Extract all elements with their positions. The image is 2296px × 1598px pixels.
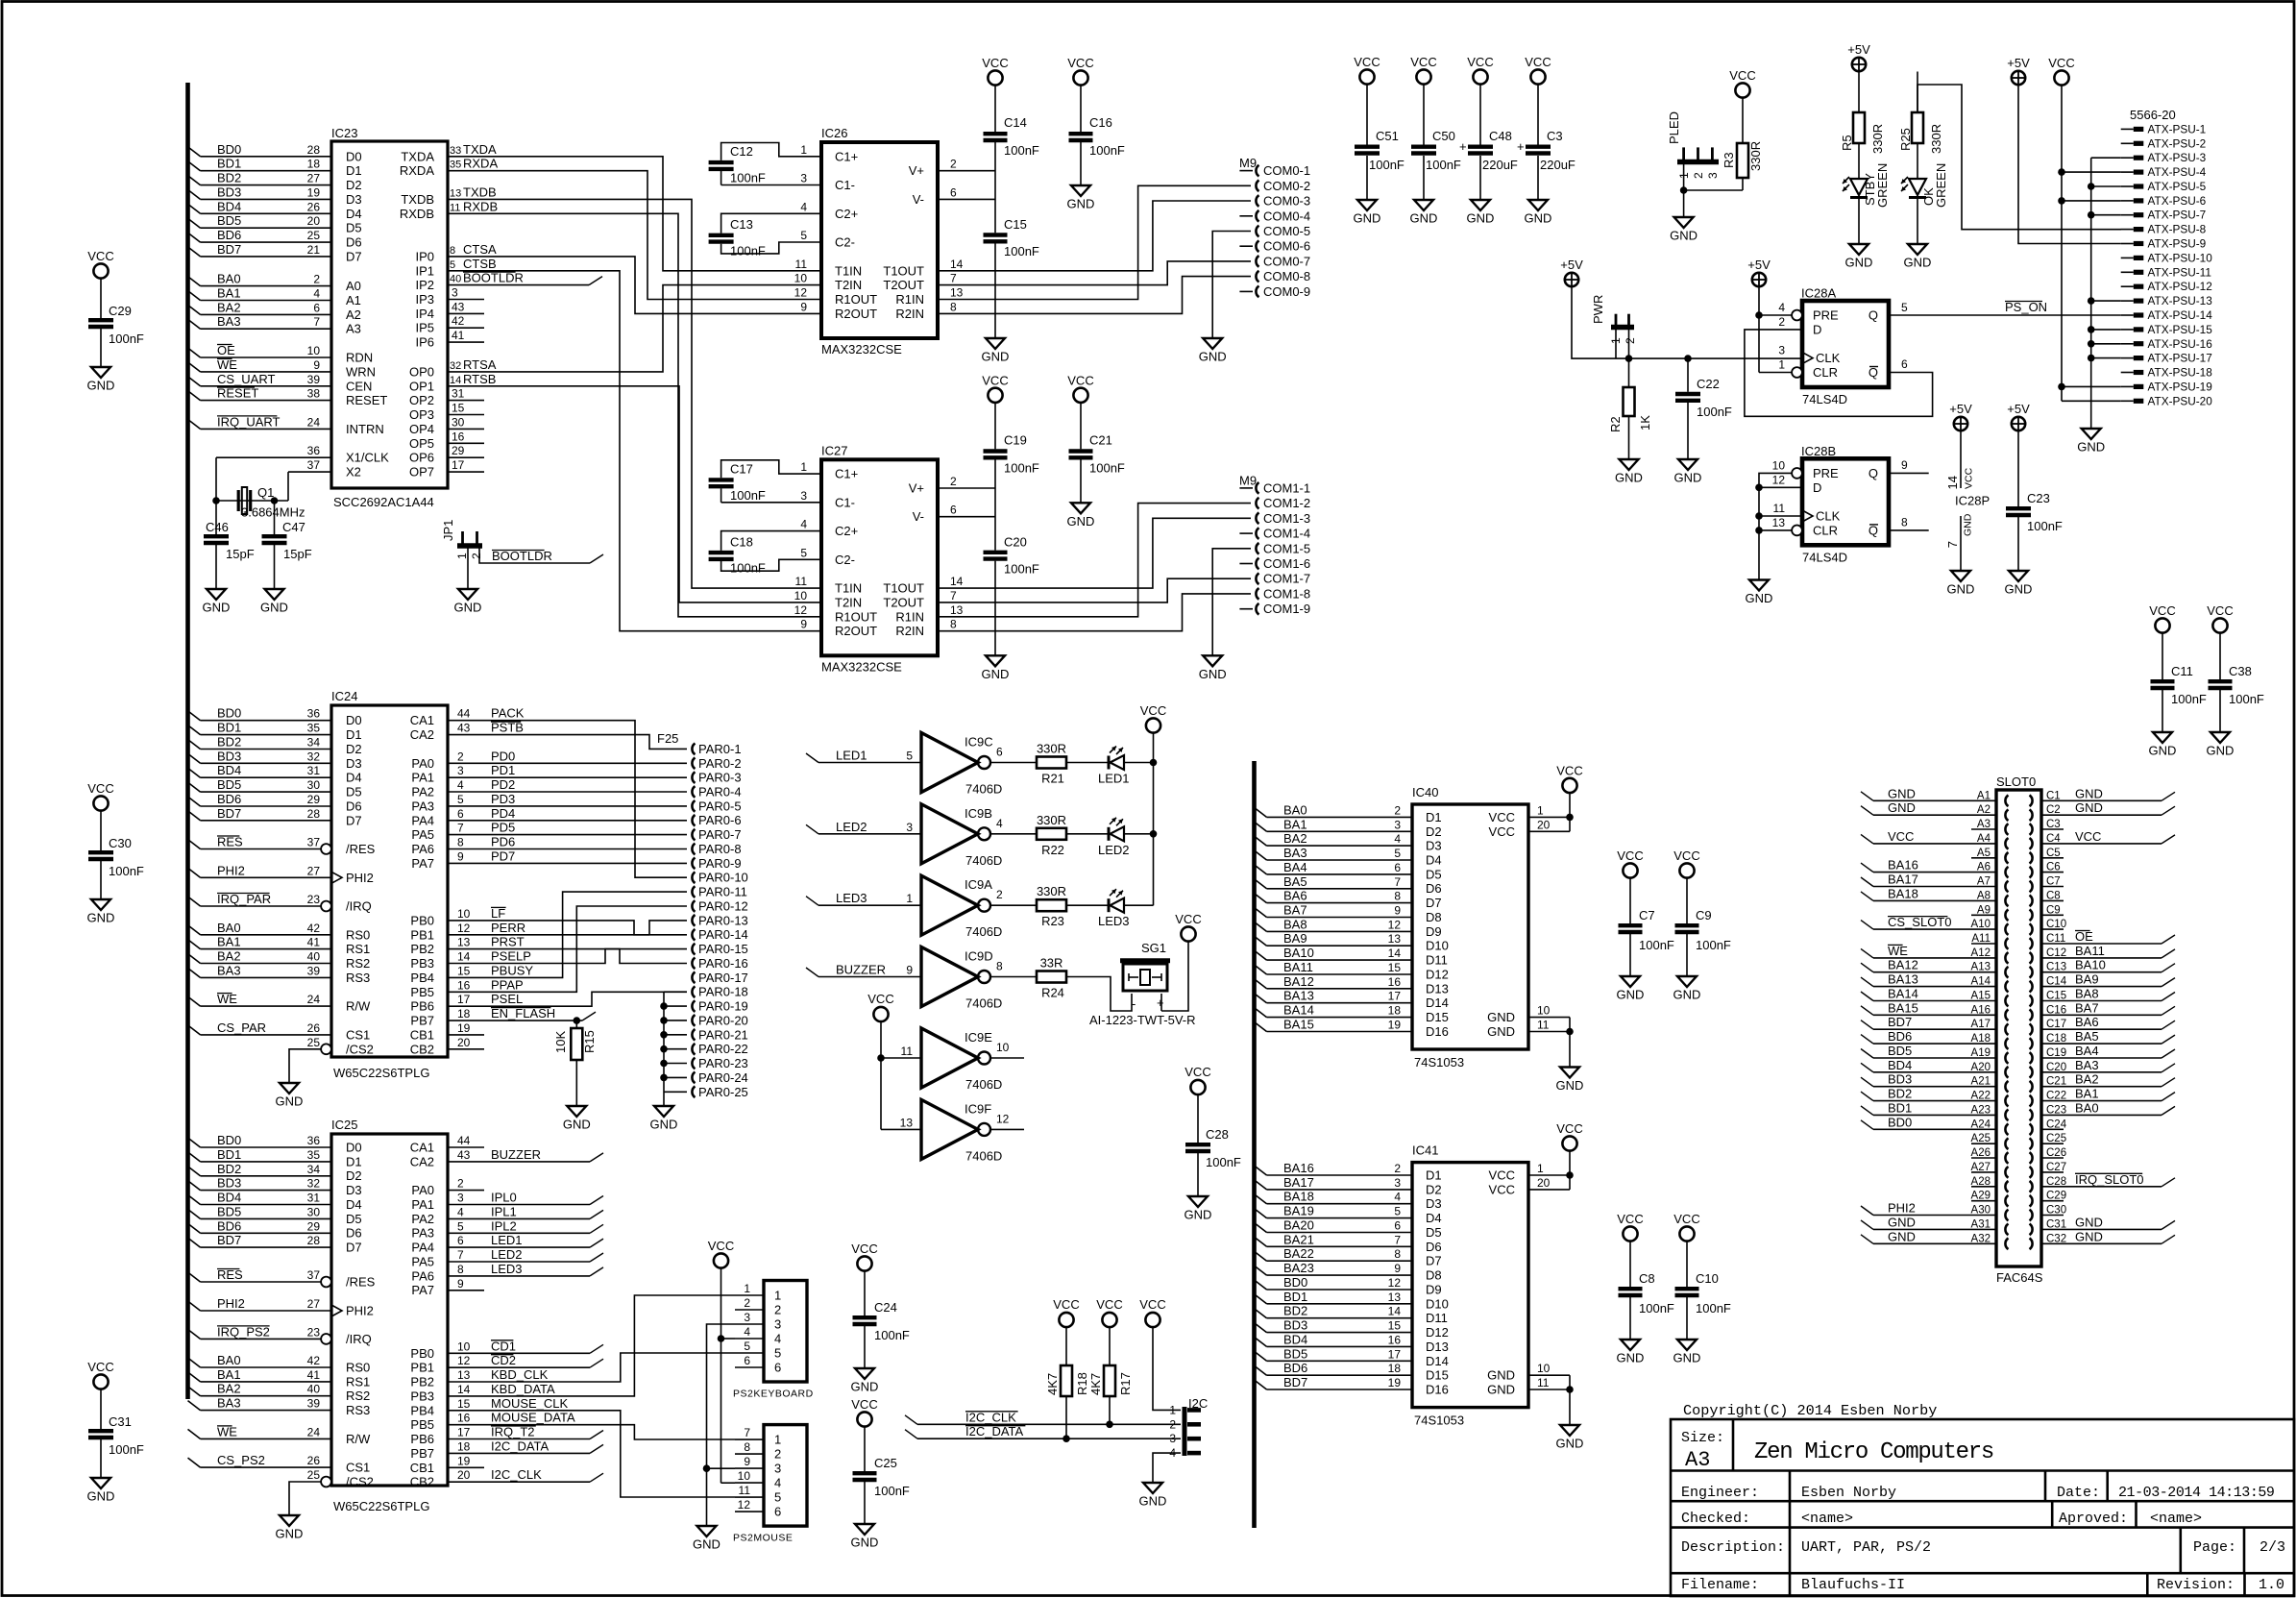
svg-text:D16: D16 bbox=[1426, 1024, 1449, 1039]
capacitor C31 100nF decoupling bbox=[87, 1360, 144, 1504]
svg-text:7: 7 bbox=[744, 1426, 750, 1439]
svg-text:7: 7 bbox=[950, 589, 957, 602]
svg-text:BA5: BA5 bbox=[2075, 1029, 2099, 1044]
svg-text:R5: R5 bbox=[1840, 135, 1854, 151]
junction dot crystal left bbox=[212, 497, 220, 504]
SLOT0 C29 stub bbox=[2041, 1200, 2064, 1202]
svg-text:9: 9 bbox=[313, 358, 320, 372]
svg-text:COM1-7: COM1-7 bbox=[1263, 572, 1310, 586]
wire BD2 to SLOT0 A22 bbox=[1861, 1087, 1996, 1101]
svg-text:BA9: BA9 bbox=[2075, 972, 2099, 987]
svg-text:RS1: RS1 bbox=[346, 1374, 370, 1389]
wire BA22 to IC41 bbox=[1255, 1246, 1413, 1261]
svg-text:100nF: 100nF bbox=[109, 332, 144, 346]
svg-text:3: 3 bbox=[1778, 344, 1785, 357]
svg-text:21: 21 bbox=[307, 243, 321, 257]
svg-text:T1IN: T1IN bbox=[835, 581, 862, 596]
svg-text:EN_FLASH: EN_FLASH bbox=[491, 1006, 555, 1020]
svg-text:2: 2 bbox=[996, 888, 1003, 901]
svg-text:13: 13 bbox=[900, 1116, 914, 1129]
svg-text:VCC: VCC bbox=[2149, 603, 2175, 618]
wire BD2 to IC41 bbox=[1255, 1304, 1413, 1318]
svg-text:ATX-PSU-6: ATX-PSU-6 bbox=[2148, 194, 2207, 208]
svg-text:12: 12 bbox=[457, 922, 471, 935]
svg-text:BA23: BA23 bbox=[1283, 1261, 1314, 1275]
wire BA16 to IC41 bbox=[1255, 1161, 1413, 1175]
svg-text:/RES: /RES bbox=[346, 1275, 376, 1290]
IC U25 W65C22S6TPLG body bbox=[321, 1118, 448, 1513]
svg-text:BA1: BA1 bbox=[217, 286, 241, 301]
svg-text:17: 17 bbox=[1388, 1347, 1402, 1361]
svg-text:D9: D9 bbox=[1426, 924, 1442, 939]
svg-text:<name>: <name> bbox=[2150, 1511, 2202, 1527]
IC23 stub pin 17 bbox=[448, 458, 484, 472]
svg-text:9: 9 bbox=[800, 618, 807, 631]
svg-text:BA0: BA0 bbox=[217, 272, 241, 286]
svg-text:17: 17 bbox=[452, 458, 465, 472]
svg-text:C16: C16 bbox=[1089, 115, 1112, 130]
svg-text:LED2: LED2 bbox=[836, 820, 867, 834]
wire BA0 to IC24 pin 42 bbox=[188, 921, 332, 935]
wire CTSA bbox=[448, 242, 821, 314]
svg-text:GND: GND bbox=[1888, 1229, 1916, 1243]
svg-text:ATX-PSU-8: ATX-PSU-8 bbox=[2148, 223, 2207, 236]
svg-text:BA21: BA21 bbox=[1283, 1232, 1314, 1246]
svg-text:C1-: C1- bbox=[835, 495, 855, 509]
svg-text:BD1: BD1 bbox=[217, 721, 241, 735]
connector PLED header bbox=[1667, 111, 1720, 179]
connector PS2MOUSE bbox=[733, 1425, 807, 1544]
IC U40 74S1053 body bbox=[1412, 785, 1528, 1069]
wire BD3 to IC41 bbox=[1255, 1318, 1413, 1333]
svg-text:GND: GND bbox=[2005, 582, 2033, 597]
svg-text:+: + bbox=[1157, 996, 1164, 1010]
wire KBD_CLK bbox=[448, 1353, 735, 1382]
wire BA1 to SLOT0 C22 bbox=[2041, 1087, 2175, 1101]
inverter IC9F 7406D bbox=[921, 1099, 1002, 1163]
SLOT0 A9 stub bbox=[1971, 914, 1996, 916]
svg-text:ATX-PSU-10: ATX-PSU-10 bbox=[2148, 251, 2213, 264]
svg-text:C12: C12 bbox=[730, 144, 753, 159]
svg-text:13: 13 bbox=[1388, 1291, 1402, 1304]
svg-text:5: 5 bbox=[906, 750, 913, 763]
IC28P power pins symbol bbox=[1945, 402, 1990, 597]
svg-text:14: 14 bbox=[1388, 947, 1402, 960]
svg-text:CB1: CB1 bbox=[410, 1461, 434, 1475]
svg-text:CTSB: CTSB bbox=[463, 257, 497, 271]
svg-text:-: - bbox=[1132, 996, 1136, 1011]
svg-text:CS1: CS1 bbox=[346, 1461, 370, 1475]
svg-text:IPL0: IPL0 bbox=[491, 1191, 517, 1205]
wire CS_PAR to IC24 pin 26 bbox=[188, 1020, 332, 1035]
svg-text:29: 29 bbox=[307, 1219, 321, 1233]
svg-text:GND: GND bbox=[1487, 1010, 1515, 1024]
svg-text:BOOTLDR: BOOTLDR bbox=[492, 549, 552, 563]
wire GND to SLOT0 A2 bbox=[1861, 800, 1996, 815]
svg-text:D15: D15 bbox=[1426, 1368, 1449, 1383]
svg-text:D3: D3 bbox=[346, 1183, 362, 1197]
svg-text:VCC: VCC bbox=[1067, 56, 1093, 70]
svg-text:V+: V+ bbox=[909, 481, 924, 496]
wire BD4 to IC41 bbox=[1255, 1332, 1413, 1346]
svg-text:C28: C28 bbox=[1206, 1127, 1229, 1142]
svg-text:BA16: BA16 bbox=[1888, 858, 1918, 873]
svg-text:D4: D4 bbox=[346, 771, 362, 785]
svg-text:PA5: PA5 bbox=[411, 827, 434, 842]
wire RTSB bbox=[448, 372, 821, 602]
svg-text:PAR0-21: PAR0-21 bbox=[698, 1027, 748, 1042]
svg-text:+: + bbox=[1459, 139, 1467, 154]
svg-text:11: 11 bbox=[1773, 502, 1786, 515]
svg-text:GND: GND bbox=[1674, 471, 1702, 485]
svg-text:BA4: BA4 bbox=[2075, 1044, 2099, 1058]
SLOT0 C25 stub bbox=[2041, 1143, 2064, 1144]
svg-text:SLOT0: SLOT0 bbox=[1996, 774, 2036, 789]
svg-text:3: 3 bbox=[452, 286, 458, 300]
svg-text:100nF: 100nF bbox=[1004, 143, 1039, 158]
IC28A Qbar feedback to D bbox=[1745, 330, 1933, 416]
svg-text:RXDB: RXDB bbox=[400, 207, 434, 221]
svg-text:COM0-6: COM0-6 bbox=[1263, 239, 1310, 254]
svg-text:30: 30 bbox=[307, 778, 321, 792]
svg-text:36: 36 bbox=[307, 1134, 321, 1147]
svg-text:LED1: LED1 bbox=[1098, 772, 1130, 786]
svg-text:/CS2: /CS2 bbox=[346, 1475, 374, 1489]
svg-text:39: 39 bbox=[307, 1397, 321, 1411]
svg-text:PAR0-5: PAR0-5 bbox=[698, 799, 742, 813]
svg-text:COM1-8: COM1-8 bbox=[1263, 586, 1310, 601]
svg-text:10: 10 bbox=[794, 272, 808, 285]
svg-text:CS_PAR: CS_PAR bbox=[217, 1020, 266, 1035]
connector JP1 jumper bbox=[441, 520, 483, 559]
svg-text:VCC: VCC bbox=[1467, 55, 1493, 69]
wire BD0 to IC25 pin 36 bbox=[188, 1133, 332, 1147]
svg-text:38: 38 bbox=[307, 387, 321, 401]
svg-text:7406D: 7406D bbox=[965, 1148, 1002, 1163]
svg-text:R15: R15 bbox=[582, 1030, 597, 1053]
svg-text:VCC: VCC bbox=[1729, 68, 1755, 83]
svg-text:COM1-1: COM1-1 bbox=[1263, 480, 1310, 495]
bus central BA/BD bus bbox=[1252, 761, 1257, 1528]
svg-text:BA2: BA2 bbox=[217, 949, 241, 964]
svg-text:1: 1 bbox=[1778, 358, 1785, 372]
VCC rail to ATX-PSU pins 4 6 19 20 bbox=[2048, 56, 2120, 401]
capacitor C15 100nF on V- bbox=[982, 217, 1039, 364]
wire LF PB0 bbox=[448, 906, 687, 935]
svg-text:33R: 33R bbox=[1040, 956, 1063, 971]
svg-text:10K: 10K bbox=[553, 1031, 568, 1053]
svg-text:CLK: CLK bbox=[1816, 351, 1841, 365]
svg-text:100nF: 100nF bbox=[2027, 519, 2063, 533]
svg-text:Size:: Size: bbox=[1681, 1430, 1724, 1446]
svg-text:VCC: VCC bbox=[1185, 1065, 1210, 1079]
svg-text:Q: Q bbox=[1869, 308, 1878, 323]
svg-text:10: 10 bbox=[307, 344, 321, 357]
resistor R2 1K bbox=[1608, 358, 1652, 484]
svg-text:3: 3 bbox=[1706, 172, 1720, 179]
svg-text:Page:: Page: bbox=[2193, 1539, 2236, 1556]
svg-text:9: 9 bbox=[457, 849, 464, 863]
wire WE to IC24 pin 24 bbox=[188, 992, 332, 1006]
svg-text:WE: WE bbox=[217, 992, 237, 1006]
svg-text:Copyright(C) 2014 Esben Norby: Copyright(C) 2014 Esben Norby bbox=[1683, 1402, 1937, 1419]
svg-text:COM0-8: COM0-8 bbox=[1263, 269, 1310, 283]
capacitor C51 100nF bbox=[1354, 55, 1404, 226]
wire BA9 to IC40 bbox=[1255, 931, 1413, 946]
svg-text:R/W: R/W bbox=[346, 1432, 371, 1446]
svg-text:36: 36 bbox=[307, 444, 321, 457]
svg-text:32: 32 bbox=[307, 1177, 321, 1191]
wire BD5 to IC23 pin 20 bbox=[188, 213, 332, 228]
wire BA7 to IC40 bbox=[1255, 903, 1413, 918]
wire BD7 to IC41 bbox=[1255, 1375, 1413, 1389]
svg-text:PSELP: PSELP bbox=[491, 949, 531, 964]
svg-text:PRST: PRST bbox=[491, 935, 525, 949]
svg-text:37: 37 bbox=[307, 836, 321, 849]
svg-text:Q: Q bbox=[1869, 523, 1878, 537]
svg-text:GND: GND bbox=[1615, 471, 1643, 485]
wire PD1 bbox=[448, 763, 687, 777]
svg-text:Zen Micro Computers: Zen Micro Computers bbox=[1754, 1439, 1993, 1465]
svg-text:15: 15 bbox=[457, 964, 471, 977]
svg-text:WE: WE bbox=[217, 357, 237, 372]
svg-text:Description:: Description: bbox=[1681, 1539, 1785, 1556]
svg-text:6: 6 bbox=[950, 504, 957, 517]
svg-text:PAR0-20: PAR0-20 bbox=[698, 1013, 748, 1027]
wire BA23 to IC41 bbox=[1255, 1261, 1413, 1275]
svg-text:6: 6 bbox=[1394, 1219, 1401, 1233]
svg-text:RDN: RDN bbox=[346, 351, 373, 365]
svg-text:D8: D8 bbox=[1426, 1268, 1442, 1283]
svg-text:C1+: C1+ bbox=[835, 149, 858, 163]
svg-text:10: 10 bbox=[1537, 1362, 1551, 1375]
svg-text:R3: R3 bbox=[1722, 152, 1736, 168]
SLOT0 C24 stub bbox=[2041, 1128, 2064, 1130]
svg-text:A3: A3 bbox=[1685, 1448, 1710, 1472]
svg-text:D5: D5 bbox=[346, 1212, 362, 1226]
svg-text:VCC: VCC bbox=[1556, 1121, 1582, 1136]
svg-text:7: 7 bbox=[457, 822, 464, 835]
svg-text:PB3: PB3 bbox=[410, 1389, 434, 1403]
wire BA21 to IC41 bbox=[1255, 1232, 1413, 1246]
title block table frame bbox=[1671, 1419, 2294, 1596]
svg-text:<name>: <name> bbox=[1801, 1511, 1853, 1527]
wire BA2 to IC23 pin 6 bbox=[188, 300, 332, 314]
svg-text:C7: C7 bbox=[1639, 908, 1655, 922]
wire LED2 bbox=[448, 1247, 603, 1262]
svg-text:OE: OE bbox=[217, 343, 235, 357]
wire LED1 bbox=[448, 1233, 603, 1247]
svg-text:5: 5 bbox=[774, 1490, 781, 1505]
wire BD4 to SLOT0 A20 bbox=[1861, 1058, 1996, 1072]
svg-text:6: 6 bbox=[950, 185, 957, 199]
svg-text:PS_ON: PS_ON bbox=[2005, 300, 2047, 314]
svg-text:D3: D3 bbox=[1426, 1196, 1442, 1211]
capacitor C17 100nF bbox=[709, 460, 821, 503]
svg-text:INTRN: INTRN bbox=[346, 422, 384, 436]
wire BA10 to IC40 bbox=[1255, 946, 1413, 960]
svg-text:PHI2: PHI2 bbox=[217, 863, 245, 877]
svg-text:28: 28 bbox=[307, 807, 321, 821]
svg-text:2: 2 bbox=[1778, 315, 1785, 329]
PS2 ground rail bbox=[693, 1324, 735, 1552]
svg-text:ATX-PSU-16: ATX-PSU-16 bbox=[2148, 337, 2213, 351]
svg-text:GND: GND bbox=[2207, 744, 2235, 758]
svg-text:3: 3 bbox=[774, 1317, 781, 1332]
svg-text:C30: C30 bbox=[109, 836, 132, 850]
svg-text:GND: GND bbox=[2075, 1229, 2103, 1243]
svg-text:R23: R23 bbox=[1041, 914, 1064, 928]
wire BA4 to SLOT0 C19 bbox=[2041, 1044, 2175, 1058]
svg-text:I2C_DATA: I2C_DATA bbox=[491, 1438, 550, 1453]
svg-text:D6: D6 bbox=[346, 235, 362, 250]
svg-text:GND: GND bbox=[1525, 211, 1552, 226]
wire PACK CA1 to PAR0-10 bbox=[448, 706, 687, 878]
svg-text:COM1-5: COM1-5 bbox=[1263, 541, 1310, 555]
wire PD7 bbox=[448, 848, 687, 863]
svg-text:D2: D2 bbox=[346, 1168, 362, 1183]
svg-text:BD0: BD0 bbox=[217, 706, 241, 721]
svg-text:43: 43 bbox=[457, 722, 471, 735]
svg-text:100nF: 100nF bbox=[874, 1328, 910, 1342]
svg-text:VCC: VCC bbox=[1888, 829, 1914, 844]
svg-text:37: 37 bbox=[307, 1268, 321, 1282]
svg-text:A2: A2 bbox=[346, 307, 361, 322]
svg-text:D9: D9 bbox=[1426, 1283, 1442, 1297]
svg-text:C15: C15 bbox=[1004, 217, 1027, 232]
svg-text:VCC: VCC bbox=[1096, 1297, 1122, 1312]
svg-text:100nF: 100nF bbox=[730, 488, 766, 503]
svg-text:IC25: IC25 bbox=[331, 1118, 357, 1132]
svg-text:5: 5 bbox=[744, 1340, 750, 1353]
svg-text:GND: GND bbox=[276, 1527, 304, 1541]
svg-text:8: 8 bbox=[950, 618, 957, 631]
capacitor C22 100nF bbox=[1674, 358, 1732, 484]
wire GND to SLOT0 C2 bbox=[2041, 800, 2175, 815]
svg-text:VCC: VCC bbox=[1140, 703, 1166, 718]
svg-text:PRE: PRE bbox=[1813, 466, 1839, 480]
svg-text:100nF: 100nF bbox=[1206, 1155, 1241, 1169]
svg-text:11: 11 bbox=[1537, 1019, 1550, 1032]
wire BD0 to IC23 pin 28 bbox=[188, 142, 332, 157]
wire GND to SLOT0 C32 bbox=[2041, 1229, 2175, 1243]
svg-text:BD1: BD1 bbox=[217, 1147, 241, 1162]
svg-text:C2+: C2+ bbox=[835, 207, 858, 221]
wire BA19 to IC41 bbox=[1255, 1204, 1413, 1218]
wire BD3 to IC24 pin 32 bbox=[188, 749, 332, 763]
svg-text:GND: GND bbox=[650, 1118, 678, 1132]
wire BA1 to IC23 pin 4 bbox=[188, 286, 332, 301]
wire BA11 to SLOT0 C12 bbox=[2041, 944, 2175, 958]
svg-text:BA1: BA1 bbox=[217, 1367, 241, 1382]
capacitor C28 100nF bbox=[1185, 1065, 1241, 1222]
wire IRQ_SLOT0 to SLOT0 C28 bbox=[2041, 1172, 2175, 1187]
wire BUZZER CA2 bbox=[448, 1147, 603, 1162]
svg-text:R2OUT: R2OUT bbox=[835, 307, 877, 321]
IC24 /CS2 pin 25 to ground bbox=[276, 1036, 321, 1109]
svg-text:6: 6 bbox=[1901, 357, 1908, 371]
svg-text:MAX3232CSE: MAX3232CSE bbox=[821, 342, 902, 356]
svg-text:GND: GND bbox=[1617, 988, 1645, 1002]
svg-text:ATX-PSU-14: ATX-PSU-14 bbox=[2148, 308, 2213, 322]
wire RES to IC25 pin 37 bbox=[188, 1267, 322, 1282]
svg-text:/CS2: /CS2 bbox=[346, 1042, 374, 1056]
wire IRQ_PAR to IC24 pin 23 bbox=[188, 892, 322, 906]
svg-text:BA15: BA15 bbox=[1283, 1018, 1314, 1032]
svg-text:CD2: CD2 bbox=[491, 1353, 516, 1367]
IC40 GND pins bbox=[1528, 1004, 1583, 1093]
svg-text:PAR0-16: PAR0-16 bbox=[698, 956, 748, 971]
wire PPAP PB5 bbox=[448, 906, 687, 992]
wire R1IN to COM1-2 bbox=[938, 504, 1251, 617]
wire PBUSY PB4 bbox=[448, 892, 687, 977]
svg-text:74S1053: 74S1053 bbox=[1414, 1055, 1464, 1069]
svg-text:T2OUT: T2OUT bbox=[883, 278, 924, 292]
svg-text:PLED: PLED bbox=[1667, 111, 1681, 144]
svg-text:RS0: RS0 bbox=[346, 927, 370, 942]
IC9E IC9F inputs tied to VCC bbox=[867, 992, 921, 1129]
capacitor C46 15pF with ground bbox=[203, 501, 255, 615]
wire OE to SLOT0 C11 bbox=[2041, 929, 2175, 944]
wire BD2 to IC25 pin 34 bbox=[188, 1162, 332, 1176]
svg-text:10: 10 bbox=[1772, 458, 1786, 472]
svg-text:BA3: BA3 bbox=[217, 1396, 241, 1411]
svg-text:PA5: PA5 bbox=[411, 1254, 434, 1268]
svg-text:7: 7 bbox=[313, 315, 320, 329]
svg-text:3: 3 bbox=[744, 1311, 750, 1324]
svg-text:PB3: PB3 bbox=[410, 956, 434, 971]
svg-text:BA12: BA12 bbox=[1888, 958, 1918, 972]
svg-text:JP1: JP1 bbox=[441, 520, 455, 541]
svg-text:BA3: BA3 bbox=[217, 963, 241, 977]
wire VCC to SLOT0 C4 bbox=[2041, 829, 2175, 844]
svg-text:100nF: 100nF bbox=[1004, 460, 1039, 475]
svg-text:R24: R24 bbox=[1041, 986, 1064, 1000]
svg-text:220uF: 220uF bbox=[1540, 158, 1575, 172]
wire BA2 to SLOT0 C21 bbox=[2041, 1072, 2175, 1087]
svg-text:15: 15 bbox=[457, 1397, 471, 1411]
wire BD1 to IC41 bbox=[1255, 1290, 1413, 1304]
svg-text:BD2: BD2 bbox=[1888, 1087, 1912, 1101]
svg-text:I2C_CLK: I2C_CLK bbox=[491, 1467, 542, 1482]
svg-text:PA0: PA0 bbox=[411, 756, 434, 771]
copyright text bbox=[1683, 1402, 1937, 1419]
svg-text:14: 14 bbox=[1945, 476, 1960, 489]
wire T1OUT to COM1-3 bbox=[938, 518, 1251, 588]
svg-text:D5: D5 bbox=[346, 221, 362, 235]
svg-text:Revision:: Revision: bbox=[2157, 1577, 2235, 1593]
svg-text:11: 11 bbox=[795, 258, 808, 271]
IC23 stub pin 29 bbox=[448, 444, 484, 457]
svg-text:10: 10 bbox=[457, 907, 471, 921]
svg-text:C46: C46 bbox=[206, 520, 229, 534]
title block size and title bbox=[1681, 1430, 1993, 1472]
svg-text:10: 10 bbox=[1537, 1004, 1551, 1018]
capacitor C8 100nF bbox=[1617, 1212, 1674, 1365]
svg-text:GND: GND bbox=[2075, 800, 2103, 815]
svg-text:PD4: PD4 bbox=[491, 806, 515, 821]
wire PRST PB2 bbox=[448, 935, 687, 964]
wire BD6 to IC25 pin 29 bbox=[188, 1218, 332, 1233]
svg-text:RTSA: RTSA bbox=[463, 357, 497, 372]
svg-text:BA13: BA13 bbox=[1888, 972, 1918, 987]
svg-text:IP5: IP5 bbox=[415, 321, 434, 335]
svg-text:42: 42 bbox=[307, 1354, 321, 1367]
IC U26 MAX3232CSE body bbox=[794, 126, 938, 356]
svg-text:BA1: BA1 bbox=[217, 935, 241, 949]
wire BD4 to IC23 pin 26 bbox=[188, 199, 332, 213]
svg-text:PA2: PA2 bbox=[411, 785, 434, 799]
